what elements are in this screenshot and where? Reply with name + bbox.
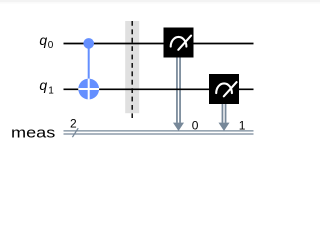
svg-text:2: 2 — [70, 117, 77, 131]
svg-text:1: 1 — [48, 85, 54, 96]
svg-text:1: 1 — [239, 118, 246, 132]
measure gate M0 on q0 — [164, 28, 194, 58]
barrier dashed line — [131, 21, 133, 118]
svg-text:meas: meas — [11, 125, 55, 141]
measure stem to creg (from M0) — [177, 58, 180, 123]
qubit label q1 — [39, 77, 54, 96]
barrier shading — [125, 21, 139, 113]
wire q1 — [64, 88, 254, 90]
measure arrowhead 1 — [219, 123, 230, 131]
CNOT target on q1 — [78, 79, 99, 100]
CNOT connector wire — [88, 43, 90, 89]
wire q0 — [64, 43, 254, 45]
svg-text:0: 0 — [192, 118, 199, 132]
measure arrowhead 0 — [173, 123, 184, 131]
svg-text:q: q — [39, 32, 47, 48]
svg-text:q: q — [39, 77, 47, 93]
svg-text:0: 0 — [48, 40, 54, 51]
measure stem to creg (from M1) — [222, 104, 225, 123]
bus width slash — [72, 128, 78, 137]
classical wire meas (double line) — [64, 131, 254, 134]
CNOT control dot on q0 — [83, 38, 94, 49]
qubit label q0 — [39, 32, 53, 51]
measure gate M1 on q1 — [209, 74, 239, 104]
faint top edge shading — [0, 0, 320, 4]
